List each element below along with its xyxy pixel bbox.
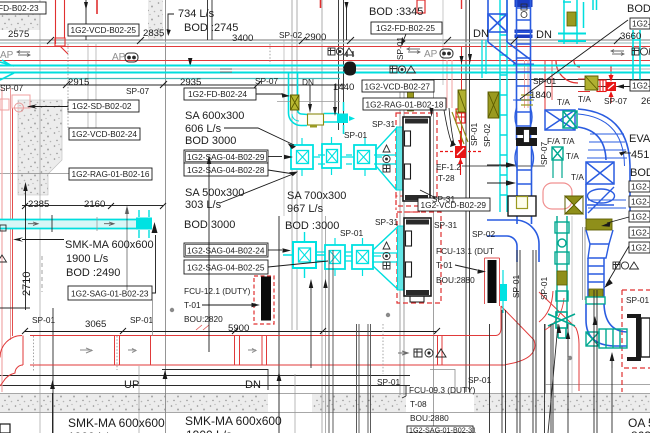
dotted vertical x383 bottom — [382, 324, 384, 374]
label box 1G2-SAG-04-B02-29 — [184, 150, 268, 163]
teal duct east — [599, 329, 627, 348]
svg-text:BOD :3000: BOD :3000 — [285, 220, 339, 232]
duct joint x52 — [51, 215, 53, 232]
svg-text:SP-07: SP-07 — [539, 142, 549, 165]
leader SMK-MA left arrow — [22, 239, 64, 241]
grid vertical x572 — [571, 216, 573, 394]
label box 1G2- right y80 — [630, 80, 650, 91]
vertical pair x207 top — [207, 0, 209, 40]
red tick top x320 — [320, 0, 322, 8]
black arrows down onto duct — [309, 85, 311, 105]
label box 1G2- right y185 — [629, 181, 650, 192]
svg-text:SP-02: SP-02 — [279, 30, 302, 40]
blue trapezoid segments — [586, 230, 613, 258]
red duct joint x262 — [261, 336, 263, 366]
riser lines bottom right — [490, 250, 613, 433]
pink wall line left edge — [1, 88, 3, 392]
svg-text:BOD 3000: BOD 3000 — [184, 219, 235, 231]
cyan corridor duct mid line — [0, 68, 650, 70]
wall band borders — [0, 393, 650, 395]
red arc bend up near teal chain — [539, 291, 553, 322]
dim tick x447 y40 — [444, 37, 451, 44]
cyan top pieces x565-590 — [558, 0, 586, 44]
svg-text:1840: 1840 — [530, 90, 551, 101]
teal small X-box T/A — [552, 147, 563, 178]
leader VCD-29 — [420, 190, 436, 198]
svg-text:2385: 2385 — [28, 199, 49, 210]
bracket FCU-09.3 — [402, 385, 406, 398]
white unit right edge — [641, 318, 650, 357]
teal X-box overlay — [563, 111, 577, 128]
svg-text:967 L/s: 967 L/s — [287, 203, 324, 215]
svg-text:SP-01: SP-01 — [626, 295, 649, 305]
leader 606 Ls — [224, 128, 294, 145]
dim tick x350 y40 — [347, 37, 354, 44]
flow arrows gray x220 y70 — [220, 69, 232, 72]
red riser x545 top — [544, 61, 546, 110]
blue elbow lower-left rounded — [487, 220, 539, 262]
svg-text:2835: 2835 — [143, 28, 164, 39]
cyan diffuser row2 mid — [325, 238, 345, 276]
cyan riser pair x633 right — [633, 30, 640, 86]
red duct left elbow outer — [0, 336, 22, 358]
red dashed frame right SP-01 — [622, 290, 650, 392]
label box 1G2-RAG-01-B02-18 — [363, 98, 446, 110]
svg-text:FCU-13.1 (DUT: FCU-13.1 (DUT — [436, 246, 494, 256]
black arrow up x279 y372 — [277, 372, 282, 381]
red dashed bits near VCD-B02-29 — [396, 196, 420, 212]
dim tick x617 y40 — [614, 37, 621, 44]
svg-text:2575: 2575 — [8, 29, 29, 40]
teal cap on riser — [586, 297, 605, 304]
label box FD-B02-23 — [0, 2, 46, 14]
red duct diagonal D1 — [501, 306, 534, 340]
EF-1.2 leader line right — [462, 165, 545, 167]
svg-text:BOU:2820: BOU:2820 — [184, 314, 223, 324]
symbol sqcirtri x632 y51 — [632, 48, 650, 55]
olive damper x488 bottom of blue A — [488, 92, 499, 118]
svg-text:1G2-: 1G2- — [631, 197, 650, 207]
cyan lower-left duct end block — [136, 218, 152, 230]
svg-text:AP: AP — [112, 52, 126, 63]
dim tick x163 y85 — [160, 81, 167, 88]
svg-text:FD-B02-23: FD-B02-23 — [0, 3, 39, 13]
red dashed frame FCU mid — [397, 212, 441, 303]
svg-text:3065: 3065 — [85, 319, 106, 330]
svg-text:T/A: T/A — [566, 151, 579, 161]
svg-text:SP-01: SP-01 — [469, 123, 479, 146]
black arrow up x209 y155 line — [208, 160, 210, 352]
AP icon x125 — [125, 53, 138, 62]
leader right 1G2 y222 — [607, 217, 629, 223]
black arrow up x127 y203 line — [126, 208, 128, 290]
svg-text:BOD :2490: BOD :2490 — [66, 267, 120, 279]
svg-text:SP-31: SP-31 — [375, 217, 398, 227]
svg-text:SA 700x300: SA 700x300 — [287, 190, 346, 202]
vertical line x153 y230-330 — [152, 300, 154, 336]
svg-text:AP: AP — [0, 50, 14, 61]
gray wall line y101 — [277, 101, 340, 103]
leader SAG-25 — [268, 261, 328, 267]
svg-text:SMK-MA 600x600: SMK-MA 600x600 — [65, 239, 154, 251]
label box 1G2- top right — [630, 18, 650, 29]
dim tick x140 y40 — [137, 37, 144, 44]
svg-text:DN: DN — [536, 29, 552, 41]
blue duct A x487-508 top with X-brace — [488, 0, 531, 64]
label box 1G2-SAG-04-B02-25 — [184, 260, 268, 274]
leader right 1G2 y250 — [606, 246, 629, 285]
red fire damper EF-1.2 — [440, 108, 481, 175]
red duct joint x437 — [437, 336, 439, 366]
svg-text:1G2-SAG-01-B02-31: 1G2-SAG-01-B02-31 — [409, 426, 476, 433]
svg-text:BOU:2880: BOU:2880 — [436, 275, 475, 285]
cyan connectors row1 — [318, 155, 352, 164]
label box 1G2-VCD-B02-29 — [418, 198, 490, 211]
blue elbow to east bottom — [586, 304, 627, 346]
cyan duct row2b to plenum — [372, 253, 398, 262]
dim tick x50 y40 — [47, 37, 54, 44]
leader 451 arrow — [619, 151, 627, 156]
red wall line left — [12, 108, 14, 336]
wall line y384 right — [545, 384, 650, 386]
svg-text:SP-07: SP-07 — [255, 76, 278, 86]
svg-text:SP-07: SP-07 — [126, 86, 149, 96]
svg-text:863: 863 — [631, 429, 650, 433]
leader top-right long diagonal — [520, 20, 628, 99]
cyan diffuser row2 right — [345, 238, 381, 276]
red main duct bottom bottom line — [30, 364, 506, 366]
cyan connectors row2 — [316, 252, 352, 261]
cyan plenum cone FCU mid — [373, 226, 405, 290]
corridor band lines y43/46 — [0, 42, 650, 44]
svg-text:OA 5: OA 5 — [628, 416, 650, 430]
red riser x461 right — [461, 47, 463, 150]
svg-text:SP-07: SP-07 — [0, 83, 23, 93]
red elbow top right — [556, 61, 580, 83]
svg-text:1G2-RAG-01-B02-16: 1G2-RAG-01-B02-16 — [72, 169, 150, 179]
leader SAG-29 — [268, 156, 282, 158]
svg-text:1G2-: 1G2- — [631, 212, 650, 222]
symbol sq left edge y228 — [0, 225, 6, 231]
cyan plenum cone FCU top — [376, 127, 404, 190]
svg-text:FCU-09.3 (DUTY): FCU-09.3 (DUTY) — [409, 385, 476, 395]
label box 1G2-SAG-01-B02-23 — [68, 286, 152, 300]
sp riser x311 with arrow — [310, 284, 312, 368]
cyan ladder duct x495-503 right — [500, 0, 507, 212]
svg-text:451: 451 — [631, 149, 649, 161]
olive box on riser low — [589, 289, 603, 297]
svg-text:1G2-SD-B02-02: 1G2-SD-B02-02 — [72, 101, 132, 111]
grid vertical pair x292/297 — [291, 0, 293, 330]
svg-text:1440: 1440 — [333, 82, 354, 93]
svg-text:EVA: EVA — [629, 133, 650, 145]
red duct bottom arc to diagonal — [506, 340, 535, 365]
cyan arrows in duct — [104, 222, 114, 225]
symbol sqcirtri x398 y354 — [414, 349, 446, 357]
svg-text:AP: AP — [424, 49, 438, 60]
flow arrow in red duct 1 — [80, 348, 92, 353]
leader SAG-24 — [268, 249, 282, 251]
gray dot x388 y315 — [386, 313, 390, 317]
svg-text:1G2-: 1G2- — [631, 182, 650, 192]
symbol sqcirtri vertical x386 y150 — [383, 145, 390, 172]
red duct joint x150 — [150, 336, 152, 366]
flow arrows gray x612 — [611, 50, 624, 56]
leader FD-B02-25 down — [402, 34, 406, 44]
cyan arrow top x592 — [593, 0, 597, 10]
cyan duct left end cap — [0, 60, 14, 80]
svg-text:734 L/s: 734 L/s — [178, 8, 215, 20]
svg-text:SP-31: SP-31 — [432, 194, 455, 204]
flow arrows gray x408 — [407, 48, 420, 54]
label box 1G2-FD-B02-24 — [184, 88, 256, 100]
svg-text:BOD :3: BOD :3 — [627, 3, 650, 15]
salmon flex duct right — [543, 183, 572, 209]
black capsule fitting x344 — [344, 62, 356, 76]
cyan lower-left duct flanges — [139, 210, 149, 238]
red flanged duct left of damper — [597, 80, 606, 92]
leader T-01 — [202, 304, 254, 306]
pink circle left — [15, 103, 24, 112]
gray dot x172 y310 — [170, 308, 174, 312]
corridor black line y79 right — [412, 79, 650, 81]
gray pair x88/x96 — [87, 44, 89, 140]
svg-text:T-01: T-01 — [184, 300, 201, 310]
grid vertical x322 — [321, 0, 323, 433]
svg-text:T/A: T/A — [571, 172, 584, 182]
dim ticks y205 — [22, 203, 166, 209]
cyan corridor duct teal line below — [0, 78, 340, 80]
dotted joint lines in red duct — [34, 336, 118, 372]
leader FD-B02-24 — [256, 93, 282, 95]
red duct diagonal D2 — [539, 292, 576, 328]
blue riser oval bulges — [587, 187, 615, 213]
black arrow up x612 y352 — [610, 352, 615, 361]
wall hatch bottom band mid — [312, 394, 406, 412]
grid vertical x443 — [442, 0, 444, 85]
grid vertical x279 — [278, 216, 280, 433]
cyan bright bit bottom right — [500, 284, 507, 301]
svg-text:SP-31: SP-31 — [372, 119, 395, 129]
text 734 L/s with leader — [168, 14, 174, 34]
grid vertical pair x466/469 — [465, 0, 467, 392]
black line y86 right — [545, 86, 650, 88]
wall hatch top-left corner — [0, 13, 40, 30]
red tick top x95 — [96, 0, 98, 14]
flow arrow in red duct 2 — [128, 349, 136, 353]
grid vertical x433 — [433, 85, 435, 433]
svg-text:1G2-: 1G2- — [632, 81, 650, 91]
corridor black line y85 — [0, 84, 345, 86]
svg-text:1G2-SAG-04-B02-24: 1G2-SAG-04-B02-24 — [187, 245, 265, 255]
svg-text:1G2-SAG-01-B02-23: 1G2-SAG-01-B02-23 — [71, 288, 149, 298]
black arrowhead x346 top — [345, 2, 349, 10]
label box 1G2-SAG-04-B02-28 — [184, 163, 268, 176]
svg-text:SP-01: SP-01 — [130, 315, 153, 325]
svg-text:BOD :3345: BOD :3345 — [369, 6, 423, 18]
black arrows down bottom-right top — [557, 324, 570, 339]
cyan diffuser SAG-24 big — [283, 232, 326, 278]
vertical symbol stack x523 — [521, 4, 527, 18]
cyan duct row2 to plenum — [374, 155, 397, 164]
black bracket right unit — [636, 314, 641, 361]
svg-text:1G2-SAG-04-B02-28: 1G2-SAG-04-B02-28 — [187, 165, 265, 175]
svg-text:SP-01: SP-01 — [32, 315, 55, 325]
dim tick x66 y85 — [63, 81, 70, 88]
label box 1G2-FD-B02-25 — [371, 22, 442, 34]
svg-text:BOD :2745: BOD :2745 — [184, 22, 238, 34]
grid vertical pair x400/404 — [399, 85, 401, 395]
svg-text:SP-01: SP-01 — [377, 377, 400, 387]
bottom structure line y375 — [0, 375, 410, 377]
pale box on horiz cyan duct — [308, 114, 324, 125]
svg-text:FCU-12.1 (DUTY): FCU-12.1 (DUTY) — [184, 286, 251, 296]
FCU unit mid — [404, 218, 431, 302]
leader 303 Ls — [220, 174, 293, 203]
olive small box on teal chain — [557, 271, 567, 285]
svg-text:F/A T/A: F/A T/A — [547, 136, 575, 146]
leader SAG-01-B02-23 bracket — [152, 235, 156, 293]
symbol sqcirtri x615 y265 — [613, 262, 639, 269]
teal riser chain x555-569 — [555, 216, 569, 316]
teal X-box at elbow — [586, 332, 599, 346]
white AHU box right — [508, 196, 536, 216]
label box 1G2-VCD-B02-27 — [362, 80, 434, 92]
dim tick x302 y40 — [299, 37, 306, 44]
risers x368/370 — [367, 324, 369, 433]
svg-text:SP-01: SP-01 — [468, 375, 491, 385]
svg-text:1G2-: 1G2- — [632, 19, 650, 29]
blue duct B lower x517-532 — [517, 146, 532, 224]
red tick top x460 — [461, 0, 463, 9]
blue duct B top cap — [515, 0, 533, 7]
dim ticks y331 — [22, 328, 440, 334]
symbol triangle left edge y258 — [0, 255, 7, 262]
svg-text:26: 26 — [641, 96, 650, 107]
wall hatch left column — [18, 100, 62, 195]
svg-text:SMK-MA 600x600: SMK-MA 600x600 — [185, 414, 282, 428]
svg-text:SP-01: SP-01 — [511, 275, 521, 298]
cyan lower-left duct SMK — [0, 220, 152, 228]
dim tick x257 y85 — [254, 81, 261, 88]
svg-text:1G2-: 1G2- — [631, 243, 650, 253]
label box 1G2- right y213 — [629, 211, 650, 222]
wall hatch bottom band right — [474, 394, 650, 412]
cyan elbow to right — [289, 110, 308, 126]
leader SAG-28 — [268, 170, 294, 174]
black arrow up x165 y370 — [163, 370, 168, 379]
flow arrow in red duct 3 — [248, 349, 256, 353]
svg-text:EF-1.2: EF-1.2 — [436, 162, 461, 172]
dim line y331 bottom — [25, 331, 437, 333]
svg-text:SP-07: SP-07 — [604, 96, 627, 106]
flow arrows gray x20 — [17, 51, 30, 57]
svg-text:1G2-VCD-B02-24: 1G2-VCD-B02-24 — [72, 129, 138, 139]
svg-text:T/A: T/A — [578, 94, 591, 104]
blue duct B ladder x516-531 — [513, 0, 534, 140]
cyan corridor duct lower line — [0, 72, 650, 74]
svg-text:2915: 2915 — [68, 77, 89, 88]
svg-text:T/A: T/A — [557, 97, 570, 107]
label box 1G2- right y245 — [629, 242, 650, 253]
svg-text:DN: DN — [302, 77, 314, 87]
svg-text:BOU:2880: BOU:2880 — [410, 413, 449, 423]
svg-text:T-08: T-08 — [410, 399, 427, 409]
floor line y40 — [0, 39, 650, 41]
wall hatch bottom band left — [0, 394, 268, 412]
red lines around black bar FCU — [485, 258, 500, 306]
svg-text:SP-31: SP-31 — [434, 220, 457, 230]
short line left y308 — [0, 307, 30, 309]
salmon marks mid right — [196, 325, 209, 330]
bottom structure line y385 — [0, 385, 410, 387]
red dashed frame FCU top — [396, 113, 437, 206]
flow arrow + symbols x412 y354 — [398, 351, 408, 355]
olive damper x458 — [458, 90, 466, 112]
symbol sqcirtri vertical x386 y247 — [383, 242, 390, 269]
red duct joint x234 — [234, 336, 236, 366]
svg-text:1G2-VCD-B02-25: 1G2-VCD-B02-25 — [71, 25, 137, 35]
label box 1G2- right y218b — [629, 227, 650, 238]
blue X-box F/A — [545, 110, 575, 130]
label box 1G2-SAG-04-B02-24 — [184, 243, 268, 257]
svg-text:2935: 2935 — [180, 77, 201, 88]
FCU-13.1 unit top — [403, 117, 430, 201]
dim line y205 left — [22, 205, 163, 207]
cyan duct horiz to block — [324, 114, 338, 123]
black arrow down x190 y60 — [188, 58, 192, 67]
svg-text:606 L/s: 606 L/s — [185, 123, 222, 135]
red duct corner up at x500 — [496, 306, 501, 336]
leader SD-B02-02 — [32, 106, 68, 108]
pink box left — [12, 95, 30, 108]
black arrow down x470 y54 — [460, 54, 473, 64]
black arrows into duct x516 — [487, 164, 508, 166]
stair lines bottom-left verticals — [52, 308, 54, 433]
tiny box bottom-left corner — [0, 424, 10, 433]
svg-text:2710: 2710 — [21, 272, 33, 296]
red box top x420 — [417, 0, 425, 13]
gray pair x582 — [582, 227, 584, 300]
svg-text:BOD 3000: BOD 3000 — [185, 135, 236, 147]
svg-text:1900 L/s: 1900 L/s — [66, 253, 109, 265]
label box 1G2-VCD-B02-24 — [69, 128, 140, 140]
red duct to damper right — [578, 79, 590, 92]
red duct left elbow inner — [0, 365, 23, 386]
black bar bottom right FCU — [488, 260, 497, 303]
black arrow down x86 — [85, 0, 87, 40]
gray dot x570 y358 — [568, 356, 572, 360]
FCU-12.1 black bar — [261, 277, 271, 321]
red dashed frame FCU-12.1 — [254, 276, 274, 324]
cyan drop x482 — [482, 40, 486, 78]
grid vertical x165 — [165, 0, 167, 433]
corridor red line y60.5 — [0, 60, 650, 62]
svg-text:SP-01: SP-01 — [539, 277, 549, 300]
black arrow up x595 y318 — [593, 316, 598, 325]
black arrow up x52 y382 — [50, 380, 55, 389]
grid vertical pair x338/343 — [338, 0, 340, 130]
wall line y173 left — [0, 173, 69, 175]
black bands on blue duct — [516, 127, 537, 135]
olive damper on cyan riser — [291, 95, 300, 110]
svg-text:1G2-SAG-04-B02-25: 1G2-SAG-04-B02-25 — [187, 262, 265, 272]
olive damper x408 — [408, 87, 414, 111]
cyan diffuser mid — [322, 137, 341, 175]
blue riser X-box — [586, 162, 614, 184]
svg-text:DN: DN — [245, 379, 261, 391]
svg-text:SP-02: SP-02 — [482, 124, 492, 147]
